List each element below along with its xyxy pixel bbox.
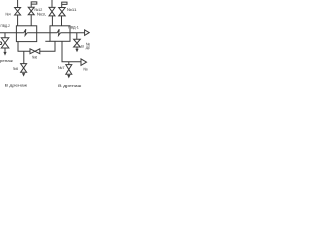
wire valve №11 to ПВД-1 xyxy=(61,16,63,26)
feedwater pipe left segment xyxy=(0,32,24,34)
wire steam inlet to valve №3 xyxy=(51,0,53,7)
svg-text:№3,: №3, xyxy=(37,12,47,17)
svg-text:ПВД-1: ПВД-1 xyxy=(68,25,80,30)
heating element zigzag in ПВД-1 xyxy=(57,29,60,35)
feedwater outlet arrow xyxy=(85,30,90,36)
svg-text:№11: №11 xyxy=(67,7,78,12)
svg-text:В: В xyxy=(81,43,84,48)
svg-text:В дренаж: В дренаж xyxy=(5,83,28,88)
valve №3 xyxy=(49,7,55,16)
wire valve №3 to ПВД-1 xyxy=(51,16,53,26)
svg-text:№: № xyxy=(83,67,87,72)
svg-text:ПВД-2: ПВД-2 xyxy=(1,23,11,28)
wire ПВД-1 drain down and right xyxy=(62,41,81,62)
valve №12 xyxy=(28,7,34,15)
flow arrow below valve №7 xyxy=(67,75,70,79)
wire ПВД-2 drain to valve №6 xyxy=(18,42,30,52)
wire drain header to valve №5 xyxy=(23,51,25,63)
flow arrow below valve №5 xyxy=(22,73,25,77)
actuator flag of valve №12 xyxy=(31,2,37,7)
wire pipe to left drain valve xyxy=(4,33,6,38)
actuator flag of valve №11 xyxy=(62,2,67,7)
feedwater pipe middle segment xyxy=(27,32,57,34)
wire right drain valve down xyxy=(76,47,78,49)
wire steam inlet to valve №4 xyxy=(17,0,19,8)
svg-text:№5: №5 xyxy=(13,66,19,71)
wire valve №6 to ПВД-1 drain riser xyxy=(40,41,55,51)
drain outlet open arrow xyxy=(81,59,87,66)
svg-text:ренаж: ренаж xyxy=(0,58,13,63)
svg-text:№7: №7 xyxy=(58,65,66,70)
flow arrow below right drain valve xyxy=(75,49,78,52)
feedwater pipe right segment xyxy=(61,32,85,34)
svg-text:№4: №4 xyxy=(5,11,11,16)
wire valve №4 to ПВД-2 xyxy=(17,15,19,26)
svg-text:др: др xyxy=(86,44,90,49)
valve №7 xyxy=(66,65,72,75)
valve №4 xyxy=(15,8,21,16)
heater ПВД-2 box xyxy=(16,26,36,42)
right drain valve xyxy=(74,39,81,47)
valve №5 xyxy=(21,64,27,73)
handwheel circle left drain valve xyxy=(0,42,2,45)
wire valve №12 to ПВД-2 xyxy=(30,15,32,26)
left drain valve xyxy=(1,38,9,48)
svg-text:В дренаж: В дренаж xyxy=(58,83,81,88)
wire drain header to valve №7 xyxy=(68,62,70,65)
wire pipe to right drain valve xyxy=(76,33,78,39)
valve №11 xyxy=(59,8,65,16)
ПВД-1 bottom tail segment xyxy=(45,40,50,42)
heating element zigzag in ПВД-2 xyxy=(24,29,27,35)
wire left drain valve down xyxy=(4,48,6,52)
heater ПВД-1 box xyxy=(50,26,70,42)
valve №6 xyxy=(30,49,40,54)
flow arrow below left drain valve xyxy=(3,52,6,56)
svg-text:№6: №6 xyxy=(32,54,38,59)
